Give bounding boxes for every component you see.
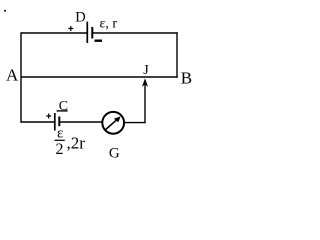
wire A-B middle horizontal — [21, 76, 178, 78]
battery D short (-) plate — [91, 27, 93, 39]
galvanometer G circle — [102, 112, 124, 134]
svg-text:B: B — [181, 68, 192, 87]
fraction bar — [55, 139, 65, 141]
wire galvanometer to vertical riser — [124, 122, 145, 124]
wire left vertical (corner through A down to bottom wire) — [20, 32, 22, 122]
svg-text:,2r: ,2r — [67, 134, 86, 153]
svg-text:2: 2 — [56, 141, 64, 158]
battery D minus sign — [95, 40, 103, 42]
battery D long (+) plate — [86, 22, 88, 44]
svg-text:J: J — [143, 63, 149, 78]
label C underline — [57, 110, 68, 112]
svg-text:D: D — [75, 9, 85, 25]
galvanometer needle — [105, 119, 117, 130]
battery C short (-) plate — [58, 117, 60, 127]
wire top-left segment (A corner to battery D positive terminal) — [21, 32, 87, 34]
jockey arrowhead at J — [142, 78, 148, 87]
wire right vertical (top corner down to B) — [176, 32, 178, 77]
wire battery C to galvanometer — [60, 121, 103, 123]
wire bottom-left segment (left corner to battery C) — [21, 121, 54, 123]
battery D plus sign — [68, 26, 73, 31]
battery C long (+) plate — [54, 113, 56, 131]
wire vertical riser to jockey arrow — [144, 84, 146, 123]
galvanometer needle arrowhead — [114, 116, 121, 122]
wire top-right segment (battery D to right corner) — [93, 32, 178, 34]
svg-text:A: A — [6, 66, 19, 85]
svg-text:ε, r: ε, r — [100, 16, 118, 31]
svg-text:ε: ε — [57, 126, 63, 142]
svg-text:G: G — [109, 146, 120, 162]
speck dot top-left — [4, 10, 6, 12]
battery C plus sign — [46, 114, 51, 119]
